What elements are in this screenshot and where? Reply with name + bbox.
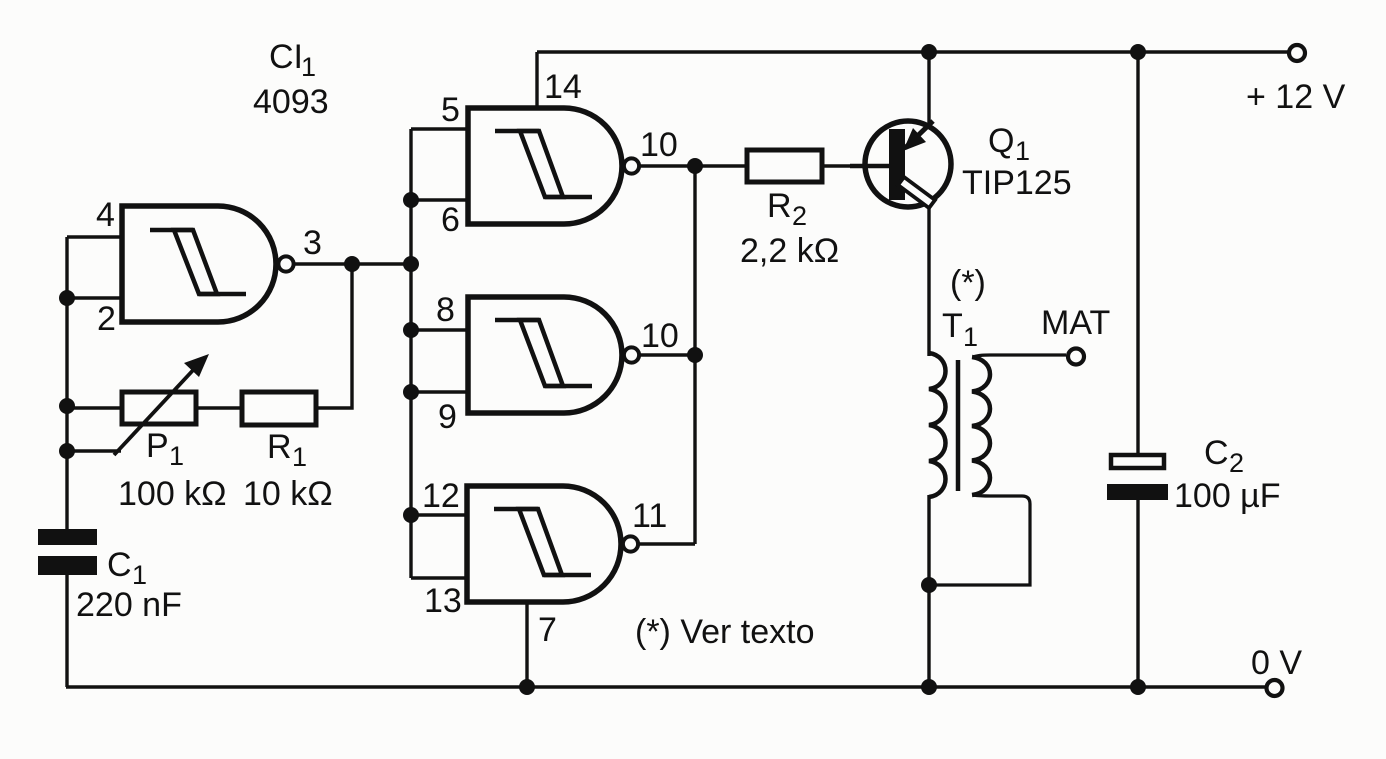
- wire P1 wiper stub: [67, 449, 121, 452]
- svg-text:Q: Q: [988, 122, 1014, 160]
- wire C2 riser top: [1136, 52, 1139, 453]
- wire top +12V rail: [537, 50, 1289, 53]
- capacitor C2: [1107, 455, 1168, 500]
- svg-text:10 kΩ: 10 kΩ: [243, 475, 333, 513]
- schmitt symbol gate2: [495, 131, 592, 197]
- wire pin14 riser: [535, 52, 538, 108]
- svg-text:R: R: [267, 428, 292, 466]
- wire pin6 input: [411, 198, 468, 201]
- wire R1 to feedback riser: [316, 264, 352, 408]
- Q1 emitter arrow: [903, 128, 926, 151]
- svg-text:4093: 4093: [253, 83, 329, 121]
- wire to P1 left: [67, 406, 122, 409]
- transistor Q1 TIP125: [850, 121, 951, 208]
- svg-text:1: 1: [169, 441, 184, 471]
- wire pin5 input: [411, 127, 468, 130]
- wire R2 to Q1 base: [822, 164, 866, 167]
- Q1 collector hollow lead: [898, 177, 935, 208]
- resistor R2: [747, 150, 822, 182]
- svg-text:2,2 kΩ: 2,2 kΩ: [740, 232, 839, 270]
- svg-text:14: 14: [544, 68, 582, 106]
- svg-text:12: 12: [422, 477, 460, 515]
- svg-text:4: 4: [96, 196, 115, 234]
- wire pin8 input: [411, 328, 468, 331]
- svg-text:2: 2: [97, 300, 116, 338]
- wire T1 secondary to MAT: [973, 355, 1066, 357]
- NAND gate CI1a (pins 4,2 out 3): [122, 206, 294, 322]
- svg-text:0 V: 0 V: [1251, 644, 1302, 682]
- svg-text:100 µF: 100 µF: [1174, 477, 1281, 515]
- resistor R1: [242, 392, 316, 425]
- inverter bubble gate1: [278, 256, 293, 271]
- svg-text:(*): (*): [950, 264, 986, 302]
- terminal +12V: [1289, 45, 1305, 61]
- svg-text:6: 6: [441, 201, 460, 239]
- svg-text:+ 12 V: + 12 V: [1246, 78, 1346, 116]
- Q1 emitter lead: [905, 121, 933, 148]
- svg-text:T: T: [942, 307, 963, 345]
- node output bus junctions: [687, 158, 703, 174]
- svg-text:11: 11: [632, 497, 667, 535]
- wire bottom 0V rail: [66, 685, 1266, 688]
- svg-text:10: 10: [641, 317, 679, 355]
- node input bus junctions: [403, 192, 419, 208]
- svg-text:C: C: [1204, 434, 1229, 472]
- wire C1 to bottom rail: [65, 575, 68, 687]
- wire pin2 input: [67, 296, 122, 299]
- node gate1 feedback: [59, 290, 75, 306]
- potentiometer P1: [114, 354, 209, 455]
- inverter bubble gate3: [624, 347, 639, 362]
- node bottom rail junctions: [519, 679, 535, 695]
- wire pin7 ground: [525, 602, 528, 687]
- transformer T1: [929, 353, 990, 497]
- wire right output bus: [693, 166, 696, 544]
- wire T1 primary bottom to rail: [927, 495, 930, 687]
- svg-text:1: 1: [292, 442, 307, 472]
- wire T1 secondary return: [929, 495, 1030, 585]
- svg-text:7: 7: [538, 611, 557, 649]
- wire middle input bus: [409, 129, 412, 578]
- svg-text:CI: CI: [269, 38, 303, 76]
- P1 wiper arrow: [114, 367, 196, 455]
- wire pin13 input: [411, 576, 467, 579]
- svg-text:8: 8: [436, 291, 455, 329]
- svg-text:P: P: [146, 427, 169, 465]
- wire pin4 input: [67, 235, 122, 238]
- T1 secondary winding: [972, 357, 990, 495]
- inverter bubble gate4: [623, 536, 638, 551]
- schmitt symbol gate3: [495, 320, 592, 386]
- Q1 base bar: [889, 129, 905, 200]
- svg-text:9: 9: [438, 398, 457, 436]
- svg-text:1: 1: [301, 52, 316, 82]
- NAND gate CI1c (pins 8,9 out 10): [468, 297, 639, 413]
- svg-text:10: 10: [640, 126, 678, 164]
- node T1 return junction: [921, 577, 937, 593]
- wire C2 to bottom rail: [1136, 500, 1139, 687]
- svg-text:1: 1: [1015, 136, 1030, 166]
- svg-text:2: 2: [792, 201, 807, 231]
- svg-text:MAT: MAT: [1041, 304, 1110, 342]
- wire gate4 output: [638, 542, 695, 545]
- svg-text:2: 2: [1229, 448, 1244, 478]
- svg-text:TIP125: TIP125: [962, 164, 1072, 202]
- inverter bubble gate2: [624, 158, 639, 173]
- wire gate2 output: [639, 164, 695, 167]
- T1 primary winding: [929, 353, 946, 497]
- wire pin12 input: [411, 513, 467, 516]
- wire gate3 output: [639, 353, 695, 356]
- wire P1 to R1: [196, 406, 242, 409]
- terminal MAT: [1068, 349, 1084, 365]
- svg-text:1: 1: [963, 322, 978, 352]
- NAND gate CI1b (pins 5,6 out 10): [468, 108, 639, 224]
- Q1 base wire inside: [850, 164, 890, 169]
- svg-text:5: 5: [441, 91, 460, 129]
- wire Q1 collector to T1: [927, 204, 930, 356]
- node top rail junctions: [921, 44, 937, 60]
- NAND gate CI1d (pins 12,13 out 11): [467, 486, 638, 602]
- capacitor C1: [38, 529, 97, 575]
- schmitt symbol gate4: [494, 509, 591, 575]
- wire pin9 input: [411, 390, 468, 393]
- wire bus to R2: [695, 164, 747, 167]
- svg-text:100 kΩ: 100 kΩ: [118, 475, 227, 513]
- svg-text:220 nF: 220 nF: [76, 586, 182, 624]
- svg-text:3: 3: [303, 224, 322, 262]
- terminal 0V: [1267, 680, 1283, 696]
- wire left feedback vertical: [65, 237, 68, 529]
- svg-text:C: C: [107, 546, 132, 584]
- svg-text:(*) Ver texto: (*) Ver texto: [635, 613, 815, 651]
- wire Q1 emitter to top rail: [927, 52, 930, 123]
- schmitt symbol gate1: [150, 230, 246, 294]
- T1 core: [956, 360, 961, 491]
- svg-text:R: R: [767, 187, 792, 225]
- wire gate1 output to bus: [293, 262, 411, 265]
- svg-text:13: 13: [424, 582, 462, 620]
